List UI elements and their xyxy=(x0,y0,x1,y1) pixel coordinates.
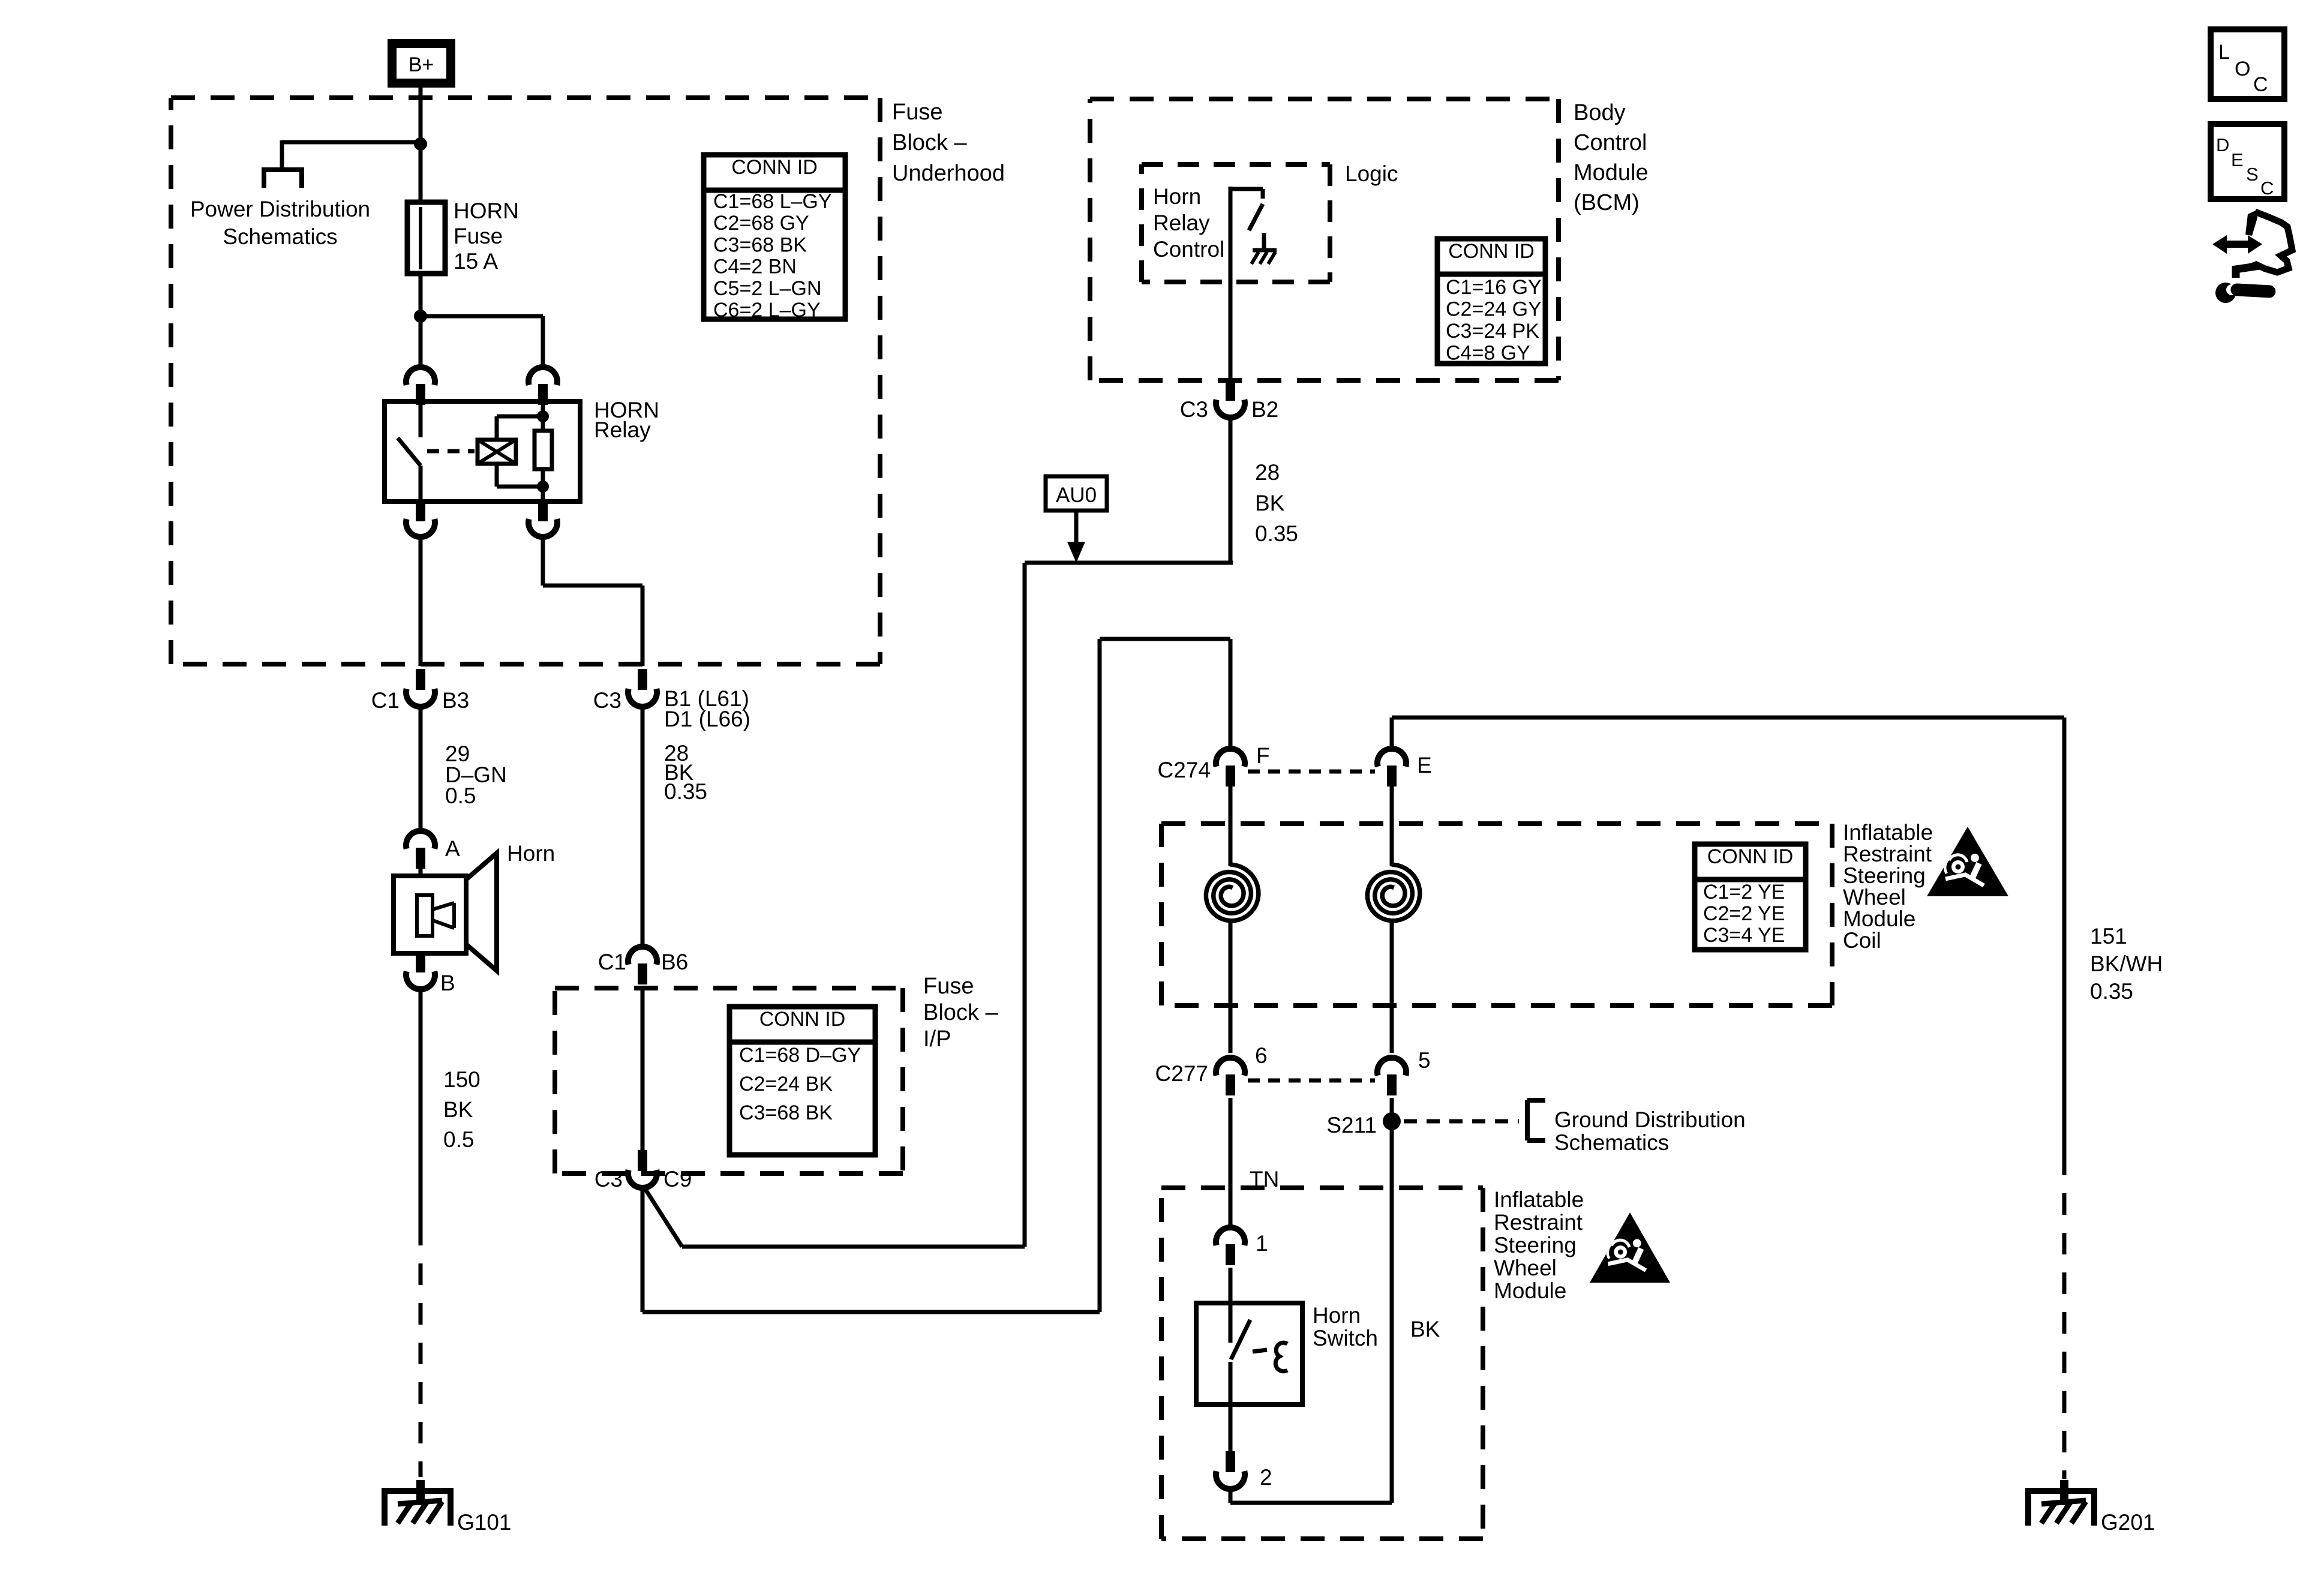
wire horizontal to C274 xyxy=(1100,637,1230,641)
svg-text:Wheel: Wheel xyxy=(1843,885,1906,909)
wire power distribution branch xyxy=(282,140,421,170)
svg-text:Schematics: Schematics xyxy=(1554,1130,1669,1155)
svg-text:B3: B3 xyxy=(442,688,469,713)
connector C1 B3 xyxy=(371,669,470,713)
connector relay pin bottom left xyxy=(406,502,435,537)
svg-text:B+: B+ xyxy=(409,53,434,76)
label Ground Distribution Schematics xyxy=(1554,1107,1746,1155)
dashed link S211 ground distribution xyxy=(1404,1119,1519,1124)
connector C3 C9 xyxy=(594,1150,692,1191)
logic block box xyxy=(1142,164,1330,282)
wire horizontal C9 to coil run xyxy=(642,1310,1100,1314)
CONN ID table BCM xyxy=(1437,239,1545,365)
svg-text:C1=68 D–GY: C1=68 D–GY xyxy=(739,1044,861,1067)
label Fuse Block - Underhood xyxy=(892,100,1005,186)
svg-text:C1: C1 xyxy=(371,688,400,713)
horn switch box xyxy=(1196,1303,1302,1404)
svg-text:F: F xyxy=(1256,743,1270,768)
ground G201 xyxy=(2028,1480,2155,1535)
wire pin2 from switch xyxy=(1229,1404,1233,1453)
svg-text:C3=4 YE: C3=4 YE xyxy=(1703,924,1785,947)
horn speaker cone xyxy=(466,853,497,971)
svg-text:0.5: 0.5 xyxy=(443,1127,474,1152)
wire branch to relay coil pin xyxy=(421,316,543,367)
wire A to horn xyxy=(419,860,423,876)
wire 29 D-GN 0.5 xyxy=(419,707,423,831)
svg-text:Ground Distribution: Ground Distribution xyxy=(1554,1107,1746,1132)
svg-text:0.35: 0.35 xyxy=(664,779,707,804)
svg-text:C3=24 PK: C3=24 PK xyxy=(1446,320,1539,343)
svg-text:(BCM): (BCM) xyxy=(1574,190,1640,215)
splice S211 xyxy=(1326,1112,1401,1137)
svg-text:5: 5 xyxy=(1418,1048,1431,1073)
svg-text:BK: BK xyxy=(1255,491,1285,515)
wire 150 BK dashed to ground xyxy=(419,1224,423,1477)
connector C277 5 xyxy=(1377,1048,1431,1095)
svg-text:HORN: HORN xyxy=(454,199,519,223)
junction node coil top xyxy=(537,410,549,422)
fuse HORN Fuse 15A xyxy=(407,202,445,274)
label Inflatable Restraint Steering Wheel Module Coil xyxy=(1843,820,1933,953)
svg-text:C4=8 GY: C4=8 GY xyxy=(1446,342,1530,365)
wire 151 BKWH solid xyxy=(2062,718,2067,1154)
icon LOC box xyxy=(2211,29,2284,99)
junction node relay branch xyxy=(414,310,427,323)
svg-text:E: E xyxy=(1417,753,1432,778)
svg-text:Block –: Block – xyxy=(923,1000,998,1025)
clockspring coil right xyxy=(1367,786,1420,1053)
inflatable restraint coil box xyxy=(1161,824,1832,1005)
svg-text:E: E xyxy=(2231,149,2244,170)
label circuit 28 BK 0.35 at B2 xyxy=(1255,460,1298,546)
svg-text:CONN ID: CONN ID xyxy=(731,156,818,179)
connector C274 E xyxy=(1377,749,1432,786)
label Horn Relay Control xyxy=(1153,184,1224,262)
svg-text:C274: C274 xyxy=(1158,758,1211,782)
svg-text:2: 2 xyxy=(1260,1465,1272,1490)
svg-text:L: L xyxy=(2218,41,2230,64)
wire pin2 to BK run xyxy=(1230,1489,1392,1503)
svg-text:O: O xyxy=(2235,58,2250,80)
svg-text:0.35: 0.35 xyxy=(1255,521,1298,546)
svg-text:S211: S211 xyxy=(1326,1113,1377,1137)
svg-text:Steering: Steering xyxy=(1843,863,1926,888)
svg-text:Logic: Logic xyxy=(1345,161,1398,186)
icon DESC box xyxy=(2211,124,2284,199)
svg-text:0.35: 0.35 xyxy=(2090,979,2133,1004)
wire down to C274 F xyxy=(1229,639,1233,750)
svg-text:Horn: Horn xyxy=(1313,1303,1361,1328)
svg-text:CONN ID: CONN ID xyxy=(1448,240,1535,263)
ground G101 xyxy=(385,1480,512,1535)
svg-text:I/P: I/P xyxy=(923,1026,951,1052)
svg-text:C2=24 BK: C2=24 BK xyxy=(739,1073,833,1095)
label circuit 28 BK 0.35 upper xyxy=(664,741,707,804)
label Horn device xyxy=(507,841,555,866)
svg-text:B6: B6 xyxy=(661,950,688,974)
svg-text:A: A xyxy=(445,836,460,861)
svg-text:G101: G101 xyxy=(457,1510,512,1535)
wire C9 down xyxy=(641,1188,645,1312)
svg-text:BK: BK xyxy=(1410,1317,1440,1341)
fuse block IP box xyxy=(555,988,903,1173)
svg-text:C2=24 GY: C2=24 GY xyxy=(1446,298,1542,321)
wire 150 BK 0.5 solid xyxy=(419,989,423,1224)
svg-text:Fuse: Fuse xyxy=(892,100,942,125)
svg-text:C4=2 BN: C4=2 BN xyxy=(713,256,797,278)
wire through fuse block IP xyxy=(641,987,645,1152)
svg-text:Block –: Block – xyxy=(892,130,967,155)
wire 28 BK 0.35 to fuse block IP xyxy=(641,707,645,947)
svg-text:150: 150 xyxy=(443,1067,481,1092)
svg-text:Horn: Horn xyxy=(507,841,555,866)
horn sounder body xyxy=(394,876,466,953)
option AU0 box xyxy=(1046,476,1107,511)
connector C274 F xyxy=(1158,743,1270,786)
body control module box xyxy=(1090,99,1559,380)
svg-text:C3: C3 xyxy=(593,688,621,713)
svg-text:Inflatable: Inflatable xyxy=(1843,820,1933,845)
wire relay coil output xyxy=(543,537,642,666)
svg-text:Power Distribution: Power Distribution xyxy=(190,197,370,221)
svg-text:Horn: Horn xyxy=(1153,184,1201,209)
svg-text:C2=2 YE: C2=2 YE xyxy=(1703,902,1785,925)
svg-text:BK: BK xyxy=(443,1097,473,1122)
svg-text:Steering: Steering xyxy=(1494,1233,1577,1257)
node B+ battery feed xyxy=(388,39,455,88)
svg-text:Module: Module xyxy=(1574,160,1649,185)
svg-text:C2=68 GY: C2=68 GY xyxy=(713,212,809,235)
option AU0 arrow xyxy=(1067,511,1085,563)
svg-text:CONN ID: CONN ID xyxy=(1707,845,1794,868)
label Power Distribution Schematics xyxy=(190,197,370,249)
svg-text:C3: C3 xyxy=(1180,397,1208,422)
wire horizontal to C9 xyxy=(644,1187,1025,1247)
svg-text:C3=68 BK: C3=68 BK xyxy=(739,1101,833,1124)
label circuit 29 D-GN 0.5 xyxy=(445,742,507,808)
wire 5 to S211 down xyxy=(1390,1098,1394,1503)
svg-text:C6=2 L–GY: C6=2 L–GY xyxy=(713,299,821,322)
svg-text:6: 6 xyxy=(1255,1043,1268,1068)
label Fuse Block - IP xyxy=(923,974,998,1052)
connector horn pin A xyxy=(406,831,460,869)
svg-text:Underhood: Underhood xyxy=(892,161,1005,186)
svg-text:Wheel: Wheel xyxy=(1494,1256,1557,1280)
connector horn switch pin 2 xyxy=(1216,1451,1272,1490)
inflatable restraint steering wheel module box xyxy=(1161,1188,1483,1539)
wire up to coil xyxy=(1098,639,1102,1312)
svg-text:Relay: Relay xyxy=(594,418,651,442)
CONN ID table fuse block IP xyxy=(729,1007,875,1155)
wire down to relay control run xyxy=(1023,563,1027,1247)
junction node coil bottom xyxy=(537,481,549,493)
relay switch contact xyxy=(398,401,421,502)
svg-text:15 A: 15 A xyxy=(454,249,498,274)
relay K HORN Relay box xyxy=(385,401,580,502)
svg-text:Control: Control xyxy=(1574,130,1647,155)
warning triangle airbag coil xyxy=(1927,827,2008,896)
svg-text:CONN ID: CONN ID xyxy=(759,1008,846,1031)
svg-text:Fuse: Fuse xyxy=(454,224,503,248)
connector relay pin bottom right xyxy=(529,502,557,537)
wire TN to horn switch xyxy=(1229,1098,1233,1227)
svg-text:C1=68 L–GY: C1=68 L–GY xyxy=(713,190,832,213)
svg-text:151: 151 xyxy=(2090,924,2127,948)
connector C3 B1 L61 D1 L66 xyxy=(593,669,750,731)
label Body Control Module BCM xyxy=(1574,100,1649,215)
svg-text:C3: C3 xyxy=(594,1167,623,1191)
label HORN Relay xyxy=(594,398,659,442)
connector horn pin B xyxy=(406,951,455,995)
label Logic xyxy=(1345,161,1398,186)
icon service dog head xyxy=(2212,211,2292,303)
svg-text:0.5: 0.5 xyxy=(445,784,476,808)
label circuit BK xyxy=(1410,1317,1440,1341)
wire B+ to fuse xyxy=(419,88,423,202)
label circuit 151 BK/WH 0.35 xyxy=(2090,924,2163,1004)
label HORN Fuse 15 A xyxy=(454,199,519,274)
svg-text:AU0: AU0 xyxy=(1056,484,1097,507)
connector C1 B6 xyxy=(598,947,689,984)
junction node power distribution tap xyxy=(414,137,427,151)
svg-text:C: C xyxy=(2253,73,2268,96)
svg-text:Restraint: Restraint xyxy=(1843,842,1932,866)
svg-text:Body: Body xyxy=(1574,100,1626,125)
wire AU0 horizontal xyxy=(1025,561,1233,565)
off-page connector power distribution xyxy=(264,167,302,188)
svg-text:Fuse: Fuse xyxy=(923,974,974,999)
svg-text:Coil: Coil xyxy=(1843,928,1881,953)
svg-text:C9: C9 xyxy=(663,1167,692,1191)
svg-text:1: 1 xyxy=(1256,1231,1268,1256)
dashed link 6 5 xyxy=(1248,1079,1375,1083)
CONN ID table coil xyxy=(1695,844,1806,950)
driver horn relay control switch xyxy=(1230,187,1263,389)
svg-text:Inflatable: Inflatable xyxy=(1494,1187,1584,1212)
svg-text:C1: C1 xyxy=(598,950,626,974)
label circuit 150 BK 0.5 xyxy=(443,1067,481,1152)
fuse block underhood box xyxy=(171,98,880,664)
wire E up to ground run xyxy=(1390,718,1394,749)
logic internal ground xyxy=(1251,233,1277,264)
svg-text:C5=2 L–GN: C5=2 L–GN xyxy=(713,277,822,300)
wire relay switch output xyxy=(419,537,423,666)
wire fuse to relay pins xyxy=(419,274,423,367)
svg-text:28: 28 xyxy=(1255,460,1280,485)
svg-text:Module: Module xyxy=(1843,906,1915,931)
svg-text:D1 (L66): D1 (L66) xyxy=(664,707,750,731)
warning triangle airbag module xyxy=(1590,1212,1670,1283)
relay coil element xyxy=(478,440,516,464)
relay actuation dashed link xyxy=(427,449,475,454)
svg-text:S: S xyxy=(2246,164,2259,185)
svg-text:C3=68 BK: C3=68 BK xyxy=(713,233,807,256)
svg-text:C1=16 GY: C1=16 GY xyxy=(1446,276,1542,299)
wire horn relay control B2 down xyxy=(1229,418,1233,563)
wire 151 BKWH dashed xyxy=(2062,1154,2067,1479)
relay coil branch wires xyxy=(497,401,543,502)
svg-text:B: B xyxy=(440,971,455,995)
horn switch contact xyxy=(1230,1303,1287,1404)
label Inflatable Restraint Steering Wheel Module xyxy=(1494,1187,1584,1303)
CONN ID table fuse block underhood xyxy=(704,155,845,322)
svg-text:D: D xyxy=(2216,134,2229,155)
bracket ground distribution xyxy=(1527,1100,1545,1140)
connector relay pin top right xyxy=(529,367,557,405)
svg-text:Restraint: Restraint xyxy=(1494,1210,1583,1235)
svg-text:Control: Control xyxy=(1153,237,1224,262)
svg-text:B2: B2 xyxy=(1251,397,1278,422)
wire pin1 to switch xyxy=(1229,1268,1233,1303)
svg-text:C1=2 YE: C1=2 YE xyxy=(1703,881,1785,903)
wire top ground run right xyxy=(1392,716,2064,720)
svg-text:Module: Module xyxy=(1494,1278,1566,1303)
svg-text:Schematics: Schematics xyxy=(223,224,337,249)
svg-text:C277: C277 xyxy=(1155,1061,1208,1086)
svg-text:G201: G201 xyxy=(2101,1510,2155,1535)
svg-text:Switch: Switch xyxy=(1313,1326,1378,1350)
svg-text:BK/WH: BK/WH xyxy=(2090,951,2163,976)
label circuit TN xyxy=(1250,1167,1279,1191)
svg-text:C: C xyxy=(2260,178,2274,199)
label Horn Switch xyxy=(1313,1303,1378,1350)
svg-text:Relay: Relay xyxy=(1153,211,1210,235)
connector C277 6 xyxy=(1155,1043,1268,1095)
connector C3 B2 xyxy=(1180,380,1279,422)
connector relay pin top left xyxy=(406,367,435,405)
clockspring coil left xyxy=(1206,786,1258,1053)
connector horn switch pin 1 xyxy=(1216,1227,1268,1265)
dashed link F E xyxy=(1248,770,1375,774)
relay resistor element xyxy=(535,431,552,469)
